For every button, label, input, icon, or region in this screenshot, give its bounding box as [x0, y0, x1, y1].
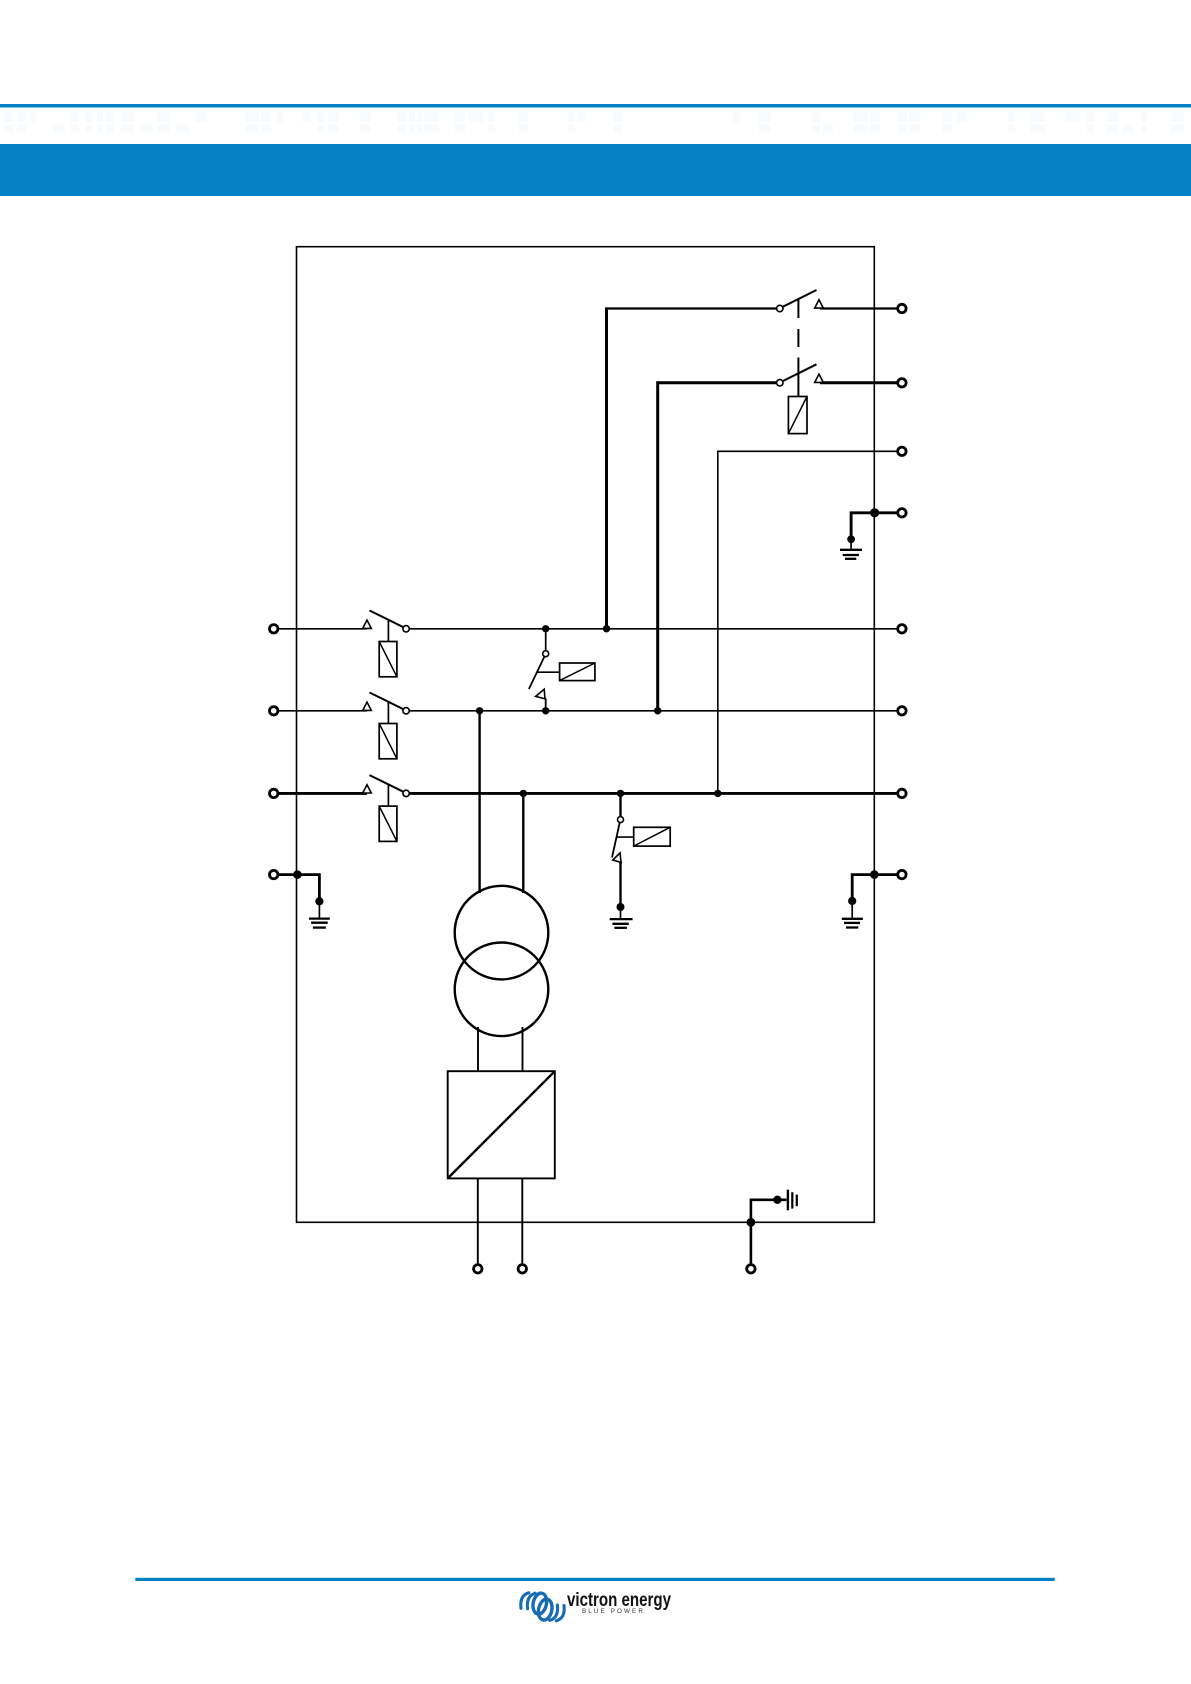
svg-text:victron energy: victron energy	[567, 1589, 671, 1611]
svg-text:BLUE POWER: BLUE POWER	[582, 1609, 645, 1615]
